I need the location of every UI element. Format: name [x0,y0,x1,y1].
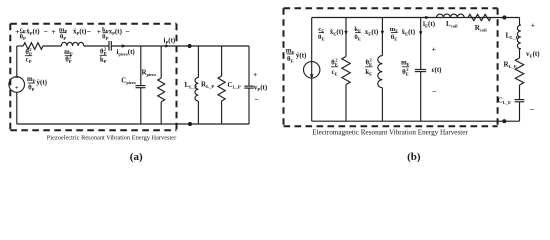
node dot bottom (b) [502,119,506,123]
svg-text:cE: cE [331,69,337,77]
svg-text:Electromagnetic Resonant Vibra: Electromagnetic Resonant Vibration Energ… [312,128,468,136]
branch current arrow (mE) [419,31,422,35]
svg-text:θP: θP [28,85,35,93]
wire jog [520,47,521,50]
current arrow i_E(t) [425,16,430,20]
capacitor C_piezo bottom plate [136,87,146,89]
svg-text:CL_P: CL_P [227,81,240,90]
wire [43,45,61,47]
svg-text:θP: θP [20,33,26,41]
current source arrow shaft [311,62,313,78]
svg-text:ÿ(t): ÿ(t) [37,78,48,86]
inductor L_LE [517,25,520,49]
right edge lower (a) [248,88,250,124]
capacitor C_LP bottom plate [244,87,254,89]
load branch upper (b) [519,18,521,26]
wire [519,85,521,100]
left rail lower (a) [16,92,18,124]
svg-text:Rpiezo: Rpiezo [142,68,156,77]
svg-text:−: − [254,95,259,104]
resistor R_LP [218,76,225,101]
source branch lower (b) [311,78,313,121]
svg-text:ẍP(t): ẍP(t) [73,28,87,37]
svg-text:cP: cP [26,57,32,64]
resistor R_coil [468,14,491,20]
branch current arrow (cE) [344,31,347,35]
current arrow i_piezo(t) [122,44,127,48]
R_LP branch upper [221,46,223,76]
svg-text:iP(t): iP(t) [164,37,176,46]
svg-text:vE(t): vE(t) [526,50,540,59]
svg-text:θP2: θP2 [65,55,72,65]
svg-text:θP2: θP2 [25,47,32,57]
svg-text:−: − [125,27,130,36]
svg-text:−: − [432,87,437,96]
capacitor thetaP^2/kP right plate [110,41,112,51]
wire jog [520,24,521,27]
dashed box (a) bottom edge [10,129,176,131]
bottom wire (b) [312,120,520,122]
right edge upper (a) [248,46,250,86]
svg-text:(a): (a) [130,151,143,163]
R_piezo branch upper [160,46,162,78]
svg-text:ipiezo(t): ipiezo(t) [117,48,136,57]
svg-text:mE: mE [401,60,410,68]
C branch lower (b) [420,72,422,122]
source branch upper (b) [311,18,313,62]
capacitor C_piezo top plate [136,85,146,87]
L_LP branch upper [197,46,199,78]
svg-text:+: + [531,21,536,30]
wire top-left (a) [17,45,23,47]
svg-text:RL_E: RL_E [504,61,518,70]
svg-text:kP: kP [100,56,107,64]
inductor thetaE^2/kE [378,56,383,88]
left rail upper (a) [16,46,18,77]
svg-text:Rcoil: Rcoil [475,24,488,33]
dashed box (b) bottom edge [284,125,498,127]
wire segment load branch [519,49,521,58]
L branch lower (b) [381,88,383,122]
resistor thetaP^2/cP [23,43,43,50]
current arrow i_P(t) [165,44,169,47]
svg-text:ẋE(t): ẋE(t) [330,28,344,37]
svg-text:θE2: θE2 [365,57,372,67]
svg-text:θP2: θP2 [100,46,107,56]
svg-text:θE: θE [287,56,294,64]
svg-text:xP(t): xP(t) [109,28,123,37]
voltage source mP/thetaP ydd(t) [9,77,25,93]
svg-text:xE(t): xE(t) [365,28,379,37]
dashed box (b) left edge [283,8,285,126]
wire [84,45,109,47]
resistor thetaE^2/cE [342,57,350,85]
svg-text:ε(t): ε(t) [432,66,443,74]
svg-text:+: + [253,70,258,79]
svg-text:+: + [97,27,102,36]
svg-text:ÿ(t): ÿ(t) [296,52,307,60]
R_LP branch lower [221,101,223,124]
L_LP branch lower [197,101,199,124]
inductor mP/thetaP^2 [61,42,83,46]
dashed box (a) right edge [176,24,178,131]
dashed box (a) left edge [9,24,11,131]
capacitor mE/thetaE^2 top plate [415,69,426,71]
svg-text:θP: θP [60,33,66,41]
svg-text:θE2: θE2 [402,67,409,77]
capacitor C_LE top plate [515,99,525,101]
R_piezo branch lower [160,102,162,124]
top wire (b) [312,17,520,19]
svg-text:vP(t): vP(t) [254,84,268,93]
svg-text:θE: θE [318,34,325,42]
capacitor C_LE bottom plate [515,101,525,103]
svg-text:−: − [43,27,48,36]
svg-text:Cpiezo: Cpiezo [121,77,135,86]
inductor L_LP [195,78,198,102]
wire top (a) to right edge [111,45,249,47]
svg-text:+: + [431,45,436,54]
capacitor C_LP top plate [244,85,254,87]
svg-text:RL_P: RL_P [201,81,214,90]
bottom wire (a) [17,123,249,125]
svg-text:θE: θE [354,34,361,42]
svg-text:−: − [15,75,19,82]
svg-text:−: − [530,105,535,114]
node dot top (a) [188,44,192,48]
svg-text:Lcoil: Lcoil [446,20,458,29]
branch current arrow (kE) [381,31,384,35]
svg-text:ẍE(t): ẍE(t) [402,28,416,37]
node dot bottom (a) [188,122,192,126]
svg-text:+: + [15,85,19,92]
dashed box (b) right edge [497,8,499,126]
load branch lower (b) [519,102,521,121]
svg-text:CL_E: CL_E [498,97,512,106]
svg-text:Piezoelectric Resonant Vibrati: Piezoelectric Resonant Vibration Energy … [47,134,177,141]
resistor R_piezo [158,78,165,102]
svg-text:kE: kE [365,69,372,77]
dashed box (b) top edge [284,7,498,9]
capacitor thetaP^2/kP left plate [108,41,110,51]
svg-text:LL_E: LL_E [506,32,519,41]
capacitor mE/thetaE^2 bottom plate [415,71,426,73]
resistor R_LE [515,58,523,85]
C_piezo branch upper [140,46,142,86]
svg-text:θE2: θE2 [331,57,338,67]
svg-text:ẋP(t): ẋP(t) [26,28,40,37]
node dot top (b) [502,15,506,19]
svg-text:−: − [87,27,92,36]
R branch lower (b) [345,85,347,122]
svg-text:θE: θE [391,34,398,42]
R branch upper (b) [345,18,347,57]
svg-text:iE(t): iE(t) [423,20,436,29]
L branch upper (b) [381,18,383,56]
C branch upper (b) [420,18,422,70]
svg-text:+: + [51,27,56,36]
C_piezo branch lower [140,88,142,124]
inductor L_coil [437,14,465,17]
svg-text:(b): (b) [407,151,421,163]
dashed box (a) top edge [10,23,176,25]
current source mE/thetaE ydd(t) [304,62,320,78]
